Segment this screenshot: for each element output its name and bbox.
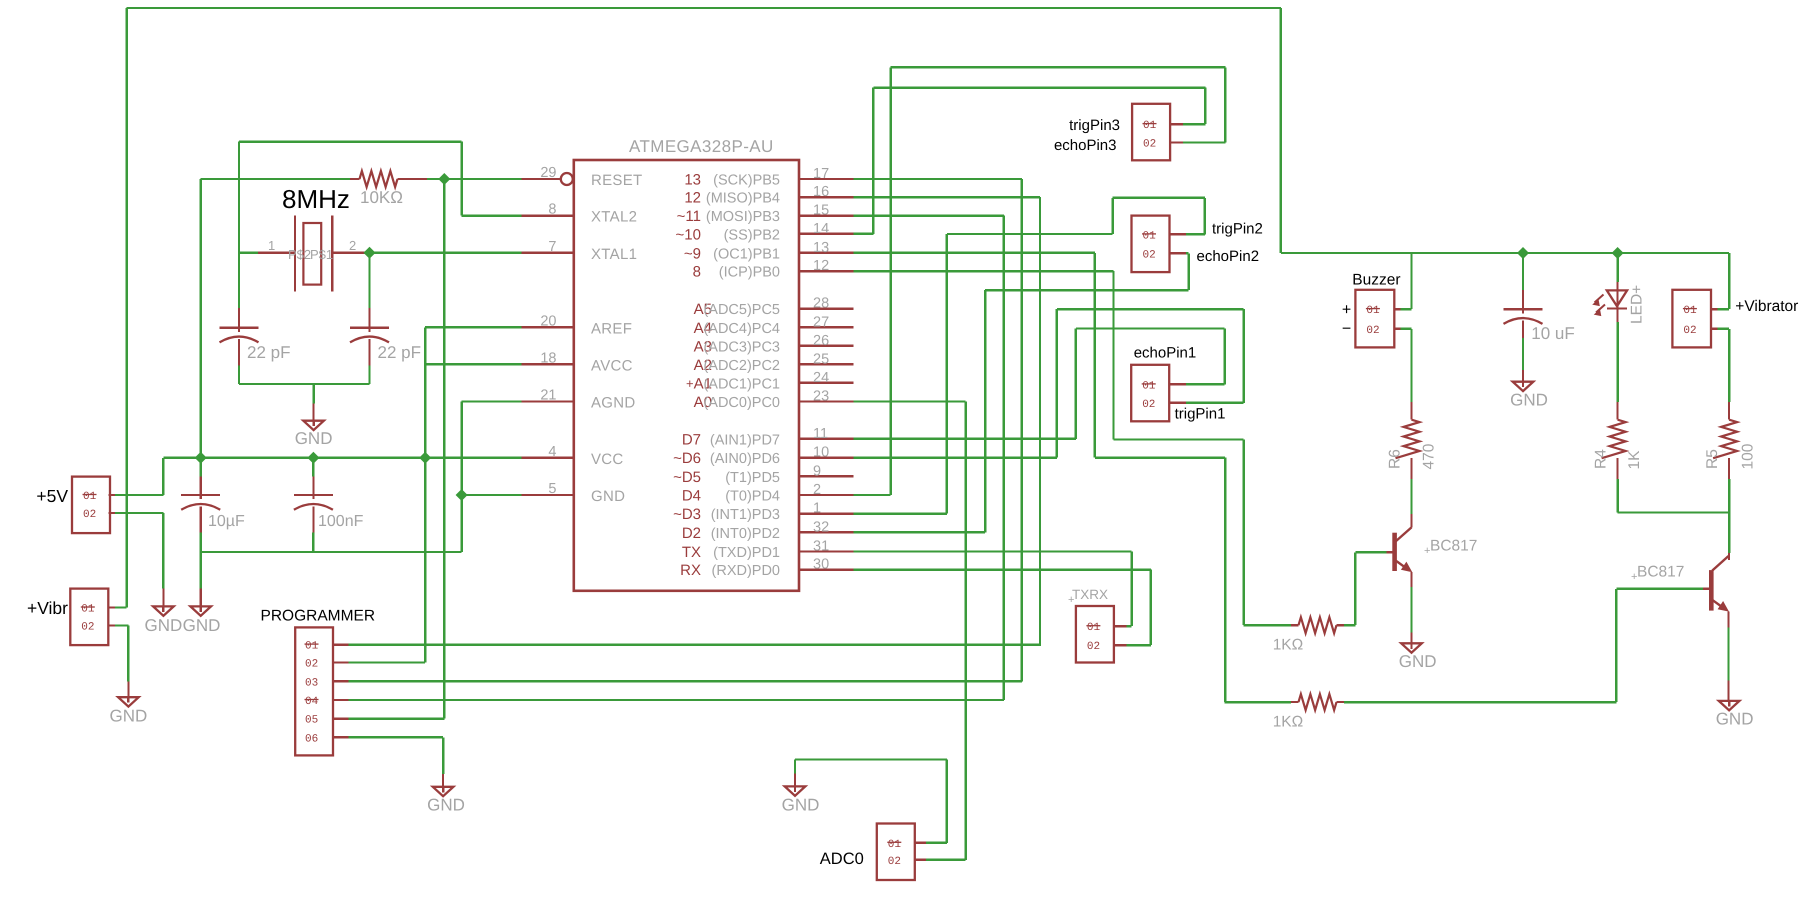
svg-text:2: 2 bbox=[349, 238, 356, 253]
svg-text:26: 26 bbox=[813, 333, 829, 349]
ground under crystal caps bbox=[313, 403, 315, 420]
connector PROGRAMMER box bbox=[295, 627, 333, 755]
svg-text:02: 02 bbox=[888, 856, 901, 868]
svg-text:13: 13 bbox=[684, 172, 701, 189]
crystal Q1 8MHz bbox=[258, 252, 295, 254]
svg-text:(INT0)PD2: (INT0)PD2 bbox=[711, 526, 780, 542]
LED arrows bbox=[1595, 295, 1606, 313]
svg-text:1K: 1K bbox=[1626, 450, 1643, 470]
wire GND pin net bbox=[462, 494, 522, 496]
resistor R2 1K (Q2 base) bbox=[1291, 701, 1299, 703]
ADC0 stubs bbox=[915, 842, 926, 844]
resistor R4 1K bbox=[1616, 402, 1618, 420]
wire PB4/MISO net bbox=[854, 196, 1041, 198]
svg-text:100: 100 bbox=[1740, 443, 1757, 469]
wire crystal pin1 bbox=[239, 252, 258, 254]
svg-text:22 pF: 22 pF bbox=[247, 343, 290, 362]
wire 10K to VCC rail bbox=[199, 179, 201, 458]
svg-text:trigPin1: trigPin1 bbox=[1175, 406, 1226, 423]
svg-text:14: 14 bbox=[813, 221, 829, 237]
svg-text:100nF: 100nF bbox=[318, 513, 364, 530]
svg-text:GND: GND bbox=[145, 616, 183, 635]
svg-text:echoPin1: echoPin1 bbox=[1134, 345, 1197, 362]
wire PD6/trigPin1 net bbox=[854, 456, 1057, 458]
wire VCC rail bbox=[163, 457, 521, 459]
svg-text:10 uF: 10 uF bbox=[1531, 324, 1574, 343]
svg-text:02: 02 bbox=[1143, 249, 1156, 261]
wire AGND vertical bbox=[460, 402, 462, 553]
svg-text:TXRX: TXRX bbox=[1072, 587, 1108, 602]
wire ADC0 pin01 to gnd bbox=[926, 842, 947, 844]
wire PC0/ADC0 net bbox=[854, 400, 966, 402]
svg-text:(ADC1)PC1: (ADC1)PC1 bbox=[703, 376, 780, 392]
capacitor C5 10uF bbox=[1522, 253, 1524, 290]
wire R1 to Q1 vertical bbox=[1344, 624, 1355, 626]
wire PD2/echoPin2 net bbox=[854, 531, 986, 533]
wire +Vibrator pin02 to R5 bbox=[1718, 328, 1730, 330]
svg-text:32: 32 bbox=[813, 519, 829, 535]
wire Buzzer pin02 to R6 bbox=[1401, 328, 1412, 330]
connector trigPin2 box bbox=[1132, 216, 1170, 273]
transistor Q2 BC817 bbox=[1709, 570, 1714, 611]
svg-text:(ADC4)PC4: (ADC4)PC4 bbox=[703, 321, 780, 337]
svg-text:12: 12 bbox=[684, 190, 701, 207]
svg-text:~D5: ~D5 bbox=[673, 469, 701, 486]
svg-text:+Vibrator: +Vibrator bbox=[1735, 298, 1798, 315]
wire Q1 base net bbox=[1355, 551, 1386, 553]
svg-text:8MHz: 8MHz bbox=[282, 184, 350, 214]
svg-text:PROGRAMMER: PROGRAMMER bbox=[261, 608, 376, 625]
wire R4 bottom bbox=[1616, 479, 1618, 512]
capacitor C3 10uF bbox=[199, 458, 201, 477]
wire +Vibrator pin01 bbox=[1718, 308, 1730, 310]
svg-text:TX: TX bbox=[682, 544, 701, 561]
svg-text:01: 01 bbox=[1143, 230, 1157, 242]
wire crystal left vertical bbox=[238, 142, 240, 308]
svg-text:P$1: P$1 bbox=[310, 247, 333, 262]
svg-text:31: 31 bbox=[813, 539, 829, 555]
wire AGND net bbox=[462, 400, 522, 402]
svg-text:GND: GND bbox=[295, 429, 333, 448]
svg-text:GND: GND bbox=[183, 616, 221, 635]
trigPin2 stubs bbox=[1170, 233, 1187, 235]
svg-text:(T0)PD4: (T0)PD4 bbox=[725, 489, 780, 505]
svg-text:01: 01 bbox=[1366, 305, 1380, 317]
wire +5V pin01 to rail bbox=[115, 494, 163, 496]
wire Q1 emitter down bbox=[1410, 572, 1412, 587]
junction GND pin bbox=[456, 489, 468, 501]
wire cap bottoms bbox=[238, 366, 240, 385]
wire trigPin3 pin01 bbox=[1183, 123, 1205, 125]
svg-text:02: 02 bbox=[1142, 399, 1155, 411]
svg-text:−: − bbox=[1342, 321, 1351, 338]
junction 100nF-rail bbox=[307, 452, 319, 464]
ground G5 programmer bbox=[442, 774, 444, 787]
svg-text:5: 5 bbox=[548, 481, 556, 497]
svg-text:(SCK)PB5: (SCK)PB5 bbox=[713, 173, 780, 189]
svg-text:AREF: AREF bbox=[591, 320, 632, 337]
svg-text:05: 05 bbox=[305, 715, 318, 727]
svg-text:D4: D4 bbox=[682, 488, 701, 505]
svg-text:8: 8 bbox=[693, 264, 701, 281]
wire +Vibr pin02 to gnd bbox=[115, 624, 128, 626]
svg-text:GND: GND bbox=[782, 796, 820, 815]
svg-text:ATMEGA328P-AU: ATMEGA328P-AU bbox=[629, 137, 774, 156]
wire LED to R4 bbox=[1616, 322, 1618, 402]
svg-text:XTAL1: XTAL1 bbox=[591, 246, 637, 263]
svg-text:~10: ~10 bbox=[676, 226, 701, 243]
junction rail-LED bbox=[1612, 247, 1624, 259]
wire programmer pin02 VCC bbox=[348, 661, 425, 663]
wire AVCC net bbox=[425, 363, 521, 365]
connector TXRX box bbox=[1076, 606, 1114, 663]
svg-text:+: + bbox=[1068, 594, 1074, 606]
ground G8 Q1 bbox=[1410, 642, 1412, 649]
wire cap bottom rail bbox=[199, 533, 201, 589]
svg-text:+: + bbox=[1342, 302, 1351, 319]
svg-text:~11: ~11 bbox=[677, 208, 701, 225]
svg-text:20: 20 bbox=[540, 313, 556, 329]
wire PB2/trigPin3 net bbox=[854, 233, 874, 235]
svg-text:(ADC2)PC2: (ADC2)PC2 bbox=[703, 358, 780, 374]
svg-text:9: 9 bbox=[813, 463, 821, 479]
connector +Vibrator box bbox=[1672, 290, 1711, 348]
connector +5V box bbox=[72, 477, 110, 533]
wire PB1/vibrator-drive net bbox=[854, 252, 1095, 254]
wire PB5/SCK net bbox=[854, 178, 1022, 180]
svg-text:~9: ~9 bbox=[684, 245, 701, 262]
svg-text:06: 06 bbox=[305, 733, 318, 745]
svg-text:04: 04 bbox=[305, 696, 319, 708]
svg-text:4: 4 bbox=[548, 444, 556, 460]
svg-text:24: 24 bbox=[813, 370, 829, 386]
svg-text:P$2: P$2 bbox=[288, 247, 311, 262]
wire PD3/trigPin2 net bbox=[854, 512, 947, 514]
svg-text:02: 02 bbox=[1366, 325, 1379, 337]
svg-text:11: 11 bbox=[813, 426, 828, 442]
svg-text:GND: GND bbox=[1399, 652, 1437, 671]
trigPin3 stubs bbox=[1170, 123, 1186, 125]
svg-text:+: + bbox=[686, 376, 694, 391]
wire programmer pin04 MOSI bbox=[348, 699, 1003, 701]
junction AREF-VCC rail bbox=[419, 452, 431, 464]
wire Q1 collector bbox=[1410, 514, 1412, 527]
wire RESET net bbox=[201, 178, 350, 180]
svg-text:18: 18 bbox=[540, 350, 556, 366]
wire PD7/echoPin1 net bbox=[854, 438, 1076, 440]
+5V pin stubs bbox=[108, 494, 115, 496]
svg-text:BC817: BC817 bbox=[1637, 564, 1684, 581]
wire AREF net bbox=[425, 326, 521, 328]
svg-text:LED+: LED+ bbox=[1629, 285, 1646, 324]
transistor Q1 BC817 bbox=[1392, 533, 1397, 571]
svg-text:R5: R5 bbox=[1704, 449, 1721, 469]
resistor R1 1K (Q1 base) bbox=[1291, 624, 1299, 626]
svg-text:(AIN0)PD6: (AIN0)PD6 bbox=[710, 451, 780, 467]
svg-text:01: 01 bbox=[1143, 120, 1157, 132]
svg-text:01: 01 bbox=[1683, 305, 1697, 317]
svg-text:ADC0: ADC0 bbox=[820, 850, 864, 868]
svg-text:(ICP)PB0: (ICP)PB0 bbox=[719, 265, 780, 281]
svg-text:01: 01 bbox=[888, 839, 902, 851]
wire Q2 base net bbox=[1616, 588, 1703, 590]
svg-text:RX: RX bbox=[680, 562, 701, 579]
svg-text:D2: D2 bbox=[682, 525, 701, 542]
svg-text:7: 7 bbox=[548, 239, 556, 255]
svg-text:1KΩ: 1KΩ bbox=[1273, 714, 1304, 731]
IC right pin stubs+numbers+row labels bbox=[799, 178, 854, 180]
wire PB0/buzzer-drive net bbox=[854, 270, 1114, 272]
connector trigPin3 box bbox=[1132, 104, 1170, 161]
svg-text:GND: GND bbox=[110, 707, 148, 726]
svg-text:(OC1)PB1: (OC1)PB1 bbox=[713, 246, 780, 262]
svg-text:(MOSI)PB3: (MOSI)PB3 bbox=[706, 209, 780, 225]
wire right border vertical bbox=[1280, 8, 1282, 253]
wire RX net bbox=[854, 568, 1151, 570]
svg-text:GND: GND bbox=[1510, 391, 1548, 410]
wire R2 left bbox=[1225, 701, 1291, 703]
svg-text:(T1)PD5: (T1)PD5 bbox=[725, 470, 780, 486]
svg-text:1: 1 bbox=[268, 238, 275, 253]
svg-text:13: 13 bbox=[813, 240, 829, 256]
svg-text:25: 25 bbox=[813, 351, 829, 367]
svg-text:2: 2 bbox=[813, 482, 821, 498]
wire +5V pin02 to gnd bbox=[115, 512, 163, 514]
svg-text:02: 02 bbox=[1143, 139, 1156, 151]
wire XTAL1 net bbox=[370, 252, 522, 254]
svg-text:~D6: ~D6 bbox=[673, 450, 701, 467]
svg-text:(SS)PB2: (SS)PB2 bbox=[724, 227, 780, 243]
ground G6 ADC0 bbox=[794, 774, 796, 787]
echoPin1 stubs bbox=[1169, 383, 1186, 385]
svg-text:(ADC0)PC0: (ADC0)PC0 bbox=[703, 395, 780, 411]
wire top border bbox=[127, 7, 1281, 9]
svg-text:02: 02 bbox=[305, 659, 318, 671]
svg-text:+Vibr: +Vibr bbox=[27, 598, 68, 618]
wire programmer pin06 GND bbox=[348, 736, 443, 738]
wire programmer pin03 SCK bbox=[348, 680, 1022, 682]
ground G9 Q2 bbox=[1728, 700, 1730, 707]
svg-text:23: 23 bbox=[813, 389, 829, 405]
junction 10uF-rail bbox=[195, 452, 207, 464]
svg-text:8: 8 bbox=[548, 202, 556, 218]
LED D1 bbox=[1616, 282, 1618, 309]
svg-text:10: 10 bbox=[813, 445, 829, 461]
TXRX stubs bbox=[1114, 625, 1127, 627]
connector ADC0 box bbox=[877, 824, 915, 881]
svg-text:10µF: 10µF bbox=[208, 513, 245, 530]
svg-text:R6: R6 bbox=[1387, 449, 1404, 469]
connector echoPin1 box bbox=[1131, 365, 1169, 422]
wire TX net bbox=[854, 550, 1132, 552]
+Vibrator stubs bbox=[1711, 308, 1718, 310]
svg-text:(ADC3)PC3: (ADC3)PC3 bbox=[703, 339, 780, 355]
wire programmer pin01 MISO bbox=[348, 643, 1041, 645]
wire R6 to Q1 collector bbox=[1410, 479, 1412, 514]
wire Buzzer pin01 bbox=[1401, 308, 1412, 310]
svg-text:1KΩ: 1KΩ bbox=[1273, 637, 1304, 654]
svg-text:01: 01 bbox=[83, 491, 97, 503]
IC left pins stubs+numbers+names bbox=[561, 173, 573, 185]
connector Buzzer box bbox=[1355, 290, 1394, 348]
svg-text:echoPin3: echoPin3 bbox=[1054, 137, 1117, 154]
svg-text:AGND: AGND bbox=[591, 395, 636, 412]
svg-text:GND: GND bbox=[591, 488, 625, 505]
wire trigPin3 pin02 bbox=[1183, 141, 1225, 143]
svg-text:AVCC: AVCC bbox=[591, 357, 633, 374]
svg-text:16: 16 bbox=[813, 184, 829, 200]
svg-text:10KΩ: 10KΩ bbox=[360, 188, 403, 207]
svg-text:470: 470 bbox=[1421, 443, 1438, 469]
svg-text:D7: D7 bbox=[682, 431, 701, 448]
svg-text:01: 01 bbox=[1142, 380, 1156, 392]
svg-text:02: 02 bbox=[1087, 641, 1100, 653]
wire PB3/MOSI net bbox=[854, 214, 1004, 216]
svg-text:02: 02 bbox=[81, 622, 94, 634]
junction crystal pin2 bbox=[364, 247, 376, 259]
svg-text:trigPin2: trigPin2 bbox=[1212, 221, 1263, 238]
svg-text:29: 29 bbox=[540, 165, 556, 181]
ground G1 +5V bbox=[162, 589, 164, 607]
svg-text:30: 30 bbox=[813, 557, 829, 573]
svg-text:03: 03 bbox=[305, 677, 318, 689]
wire left border vertical (+Vibr feed) bbox=[125, 8, 127, 608]
resistor R6 470 bbox=[1410, 402, 1412, 420]
PROGRAMMER pin stubs+labels bbox=[333, 643, 348, 645]
svg-text:(AIN1)PD7: (AIN1)PD7 bbox=[710, 432, 780, 448]
svg-text:+: + bbox=[1631, 571, 1637, 583]
wire +Vibr pin01 bbox=[115, 606, 126, 608]
capacitor C4 100nF bbox=[312, 458, 314, 477]
svg-text:15: 15 bbox=[813, 203, 829, 219]
resistor R-10K bbox=[350, 178, 360, 180]
junction RESET-net bbox=[438, 173, 450, 185]
svg-text:1: 1 bbox=[813, 501, 821, 517]
svg-text:(TXD)PD1: (TXD)PD1 bbox=[713, 545, 780, 561]
wire Q2 emitter down bbox=[1727, 612, 1729, 628]
resistor R5 100 bbox=[1728, 402, 1730, 420]
+Vibr pin stubs bbox=[108, 606, 115, 608]
wire C5 bottom bbox=[1522, 338, 1524, 370]
svg-text:R4: R4 bbox=[1593, 449, 1610, 469]
svg-text:(MISO)PB4: (MISO)PB4 bbox=[706, 191, 780, 207]
svg-text:BC817: BC817 bbox=[1430, 538, 1477, 555]
connector +Vibr box bbox=[70, 589, 108, 646]
ground G4 +Vibr bbox=[127, 682, 129, 698]
svg-text:(ADC5)PC5: (ADC5)PC5 bbox=[703, 302, 780, 318]
svg-text:12: 12 bbox=[813, 258, 829, 274]
svg-text:02: 02 bbox=[1683, 325, 1696, 337]
wire Q2 collector bbox=[1728, 553, 1730, 560]
svg-text:02: 02 bbox=[83, 509, 96, 521]
svg-text:+: + bbox=[1424, 545, 1430, 557]
svg-text:28: 28 bbox=[813, 296, 829, 312]
svg-text:VCC: VCC bbox=[591, 451, 624, 468]
wire crystal loop top bbox=[239, 140, 462, 142]
svg-text:22 pF: 22 pF bbox=[378, 343, 421, 362]
svg-text:17: 17 bbox=[813, 166, 829, 182]
svg-text:RESET: RESET bbox=[591, 172, 643, 189]
junction rail-10uF bbox=[1517, 247, 1529, 259]
ground G7 C5 bbox=[1522, 370, 1524, 382]
svg-text:GND: GND bbox=[1716, 710, 1754, 729]
svg-text:01: 01 bbox=[81, 604, 95, 616]
wire crystal right vertical bbox=[368, 253, 370, 308]
wire RESET to programmer pin05 bbox=[443, 179, 445, 719]
svg-text:(RXD)PD0: (RXD)PD0 bbox=[712, 563, 780, 579]
wire LED top bbox=[1616, 253, 1618, 282]
wire AREF vertical to programmer pin02 bbox=[424, 327, 426, 662]
wire R5 to Q2 collector bbox=[1728, 479, 1730, 553]
svg-text:27: 27 bbox=[813, 314, 829, 330]
svg-text:01: 01 bbox=[1087, 622, 1101, 634]
wire programmer pin05 RESET bbox=[348, 717, 444, 719]
svg-text:01: 01 bbox=[305, 641, 319, 653]
svg-text:XTAL2: XTAL2 bbox=[591, 209, 637, 226]
svg-text:echoPin2: echoPin2 bbox=[1197, 248, 1260, 265]
ground G2 below 10uF bbox=[200, 589, 202, 607]
svg-text:GND: GND bbox=[427, 796, 465, 815]
IC U1 ATMEGA328P-AU box bbox=[574, 160, 799, 591]
capacitor C1 22pF bbox=[238, 308, 240, 332]
svg-text:(INT1)PD3: (INT1)PD3 bbox=[711, 507, 780, 523]
wire PD4/echoPin3 net bbox=[854, 494, 891, 496]
wire right top rail bbox=[1281, 252, 1729, 254]
svg-text:+5V: +5V bbox=[36, 486, 68, 506]
svg-text:trigPin3: trigPin3 bbox=[1069, 117, 1120, 134]
capacitor C2 22pF bbox=[368, 308, 370, 332]
svg-text:21: 21 bbox=[540, 388, 556, 404]
Buzzer stubs bbox=[1394, 308, 1400, 310]
svg-text:~D3: ~D3 bbox=[673, 506, 701, 523]
svg-text:Buzzer: Buzzer bbox=[1352, 272, 1400, 289]
